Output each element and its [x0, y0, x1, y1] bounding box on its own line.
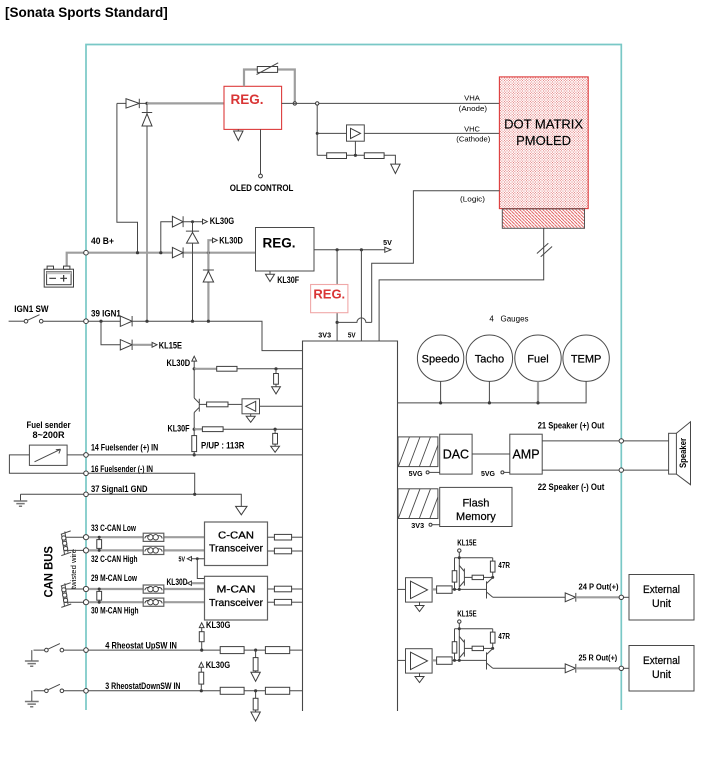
- svg-text:25 R Out(+): 25 R Out(+): [579, 653, 618, 662]
- resistor base pull 2: [452, 642, 457, 653]
- resistor KL30F row: [194, 427, 302, 432]
- svg-text:(Logic): (Logic): [460, 194, 485, 203]
- transistor Q1 (P drive): [459, 566, 464, 588]
- svg-text:External: External: [643, 584, 680, 596]
- node 32 (boundary): [65, 548, 89, 553]
- diode (vertical, below node): [142, 103, 152, 126]
- wire node to REG: [147, 102, 224, 104]
- label 3V3 (flash): [411, 521, 439, 530]
- svg-text:Tacho: Tacho: [475, 354, 504, 366]
- node: [254, 649, 257, 652]
- transistor Q4 (R out): [487, 649, 493, 670]
- display DOT MATRIX PMOLED: [499, 77, 588, 209]
- svg-text:Transceiver: Transceiver: [209, 597, 263, 609]
- svg-text:KL30D: KL30D: [167, 357, 191, 368]
- wire 3V3 drop: [336, 250, 338, 323]
- wire M-CAN high: [89, 601, 205, 603]
- arrow KL30G (rheostat down pull): [199, 659, 230, 691]
- node: [193, 493, 196, 496]
- node 33 (boundary): [66, 535, 89, 540]
- switch rheostat down: [25, 684, 84, 706]
- diode (IGN1 to B+ clamp): [203, 253, 214, 322]
- resistor (rheostat down B): [265, 687, 289, 694]
- svg-text:KL30G: KL30G: [210, 215, 234, 226]
- choke M-CAN high: [143, 598, 164, 606]
- arrow KL15E: [152, 339, 182, 350]
- arrow 5V (transceiver supply): [179, 555, 205, 579]
- svg-text:KL30G: KL30G: [206, 619, 230, 630]
- diode KL30G: [172, 216, 202, 227]
- label fuel sender: [26, 419, 70, 440]
- svg-text:4 Rheostat UpSW IN: 4 Rheostat UpSW IN: [105, 640, 177, 651]
- node 14 (boundary): [84, 453, 89, 458]
- svg-text:KL30G: KL30G: [206, 659, 230, 670]
- node: [453, 659, 456, 662]
- regulator REG1 (OLED supply): [224, 86, 282, 129]
- svg-text:Speaker: Speaker: [677, 438, 688, 468]
- transistor (fuel sense): [194, 369, 199, 429]
- resistor (buffer 1 out): [432, 586, 452, 593]
- comparator (fuel input): [242, 399, 303, 414]
- svg-text:Transceiver: Transceiver: [209, 543, 263, 555]
- label KL15E (1): [457, 539, 476, 553]
- wire VHA rail: [282, 102, 500, 104]
- svg-text:IGN1 SW: IGN1 SW: [14, 303, 48, 314]
- svg-text:Speedo: Speedo: [422, 354, 460, 366]
- node: [439, 401, 442, 404]
- node 29 (boundary): [66, 586, 89, 591]
- wire sender return: [9, 455, 83, 473]
- diode (clamp to KL30G): [186, 222, 199, 322]
- svg-text:14 Fuelsender (+) IN: 14 Fuelsender (+) IN: [91, 441, 158, 452]
- svg-text:5V: 5V: [179, 555, 186, 564]
- node 37 (boundary): [84, 492, 89, 497]
- svg-text:21 Speaker (+) Out: 21 Speaker (+) Out: [538, 419, 605, 430]
- svg-text:5VG: 5VG: [409, 469, 423, 478]
- wire 5V rail: [314, 249, 385, 251]
- node: [159, 251, 162, 254]
- hatched bus (Flash): [398, 489, 438, 519]
- resistor M-CAN RX out: [268, 599, 303, 605]
- node: [274, 367, 277, 370]
- resistor (rheostat down A): [220, 687, 244, 694]
- regulator REG2 (3V3): [311, 285, 348, 313]
- wire KL15E feed 2: [455, 623, 493, 660]
- svg-text:VHA: VHA: [464, 94, 480, 103]
- svg-text:KL15E: KL15E: [457, 539, 476, 548]
- diode (B+ to OLED reg): [126, 99, 147, 108]
- svg-text:3 RheostatDownSW IN: 3 RheostatDownSW IN: [105, 680, 180, 691]
- svg-text:OLED CONTROL: OLED CONTROL: [230, 182, 294, 193]
- node: [491, 647, 494, 650]
- gauge Fuel: [515, 335, 561, 403]
- svg-text:3V3: 3V3: [411, 521, 424, 530]
- svg-text:24 P Out(+): 24 P Out(+): [579, 582, 619, 591]
- ground arrow (signal GND): [236, 506, 247, 514]
- wire gauges bus: [398, 381, 587, 403]
- resistor 47R (2): [490, 629, 510, 649]
- node feedthrough: [619, 595, 623, 599]
- svg-text:(Cathode): (Cathode): [456, 134, 490, 143]
- node: [336, 248, 339, 251]
- node: [274, 428, 277, 431]
- wire 5V drop to MCU: [360, 250, 362, 341]
- buffer amp (P out): [406, 578, 433, 602]
- transistor Q3 (R drive): [459, 637, 464, 659]
- svg-text:Unit: Unit: [652, 598, 671, 610]
- node feedthrough: [619, 468, 623, 472]
- diode (B+ series): [172, 247, 183, 257]
- OLED CONTROL stub: [230, 129, 294, 193]
- diode IGN1 series: [120, 316, 132, 326]
- node: [458, 627, 461, 630]
- wire base 2: [452, 659, 486, 661]
- svg-text:KL15E: KL15E: [159, 339, 182, 350]
- external unit 1: [629, 575, 694, 621]
- svg-text:[Sonata Sports Standard]: [Sonata Sports Standard]: [5, 5, 168, 20]
- label KL15E (2): [457, 610, 476, 624]
- resistor M-CAN TX out: [268, 586, 303, 592]
- svg-text:Fuel: Fuel: [527, 354, 548, 366]
- ground arrow under REG1: [234, 129, 243, 140]
- wire speaker +: [542, 440, 668, 442]
- node KL30D tap: [207, 251, 210, 254]
- wire 37: [21, 494, 242, 506]
- arrow KL30D pull-up: [167, 356, 197, 369]
- svg-text:KL30F: KL30F: [277, 274, 299, 285]
- svg-text:REG.: REG.: [231, 92, 264, 107]
- wire MCU to buffer 2: [398, 659, 406, 661]
- wire KL15E feed 1: [455, 552, 493, 589]
- svg-text:40 B+: 40 B+: [91, 235, 114, 246]
- choke C-CAN low: [143, 533, 164, 541]
- svg-text:37 Signal1 GND: 37 Signal1 GND: [91, 483, 148, 494]
- svg-text:39 IGN1: 39 IGN1: [91, 308, 121, 319]
- svg-text:VHC: VHC: [464, 124, 480, 133]
- transistor Q2 (P out): [487, 578, 493, 599]
- node: [200, 649, 203, 652]
- speaker: [669, 422, 691, 485]
- choke M-CAN low: [143, 585, 164, 593]
- switch IGN1: [9, 315, 84, 323]
- node feedthrough: [619, 439, 623, 443]
- resistor (left of divider): [317, 153, 346, 159]
- wire C-CAN high: [89, 549, 205, 551]
- wire R output: [493, 667, 565, 669]
- gauge Tacho: [466, 335, 512, 403]
- wire rheostat up: [89, 649, 303, 651]
- svg-text:AMP: AMP: [512, 448, 539, 462]
- svg-text:5VG: 5VG: [481, 469, 495, 478]
- label VHA: [459, 94, 487, 113]
- svg-text:3V3: 3V3: [318, 330, 331, 339]
- resistor (right of divider): [364, 153, 395, 164]
- svg-text:Flash: Flash: [462, 498, 489, 510]
- gauge Speedo: [417, 335, 463, 403]
- svg-text:30 M-CAN High: 30 M-CAN High: [91, 605, 139, 616]
- resistor 47R (1): [490, 558, 510, 578]
- svg-text:DAC: DAC: [443, 448, 469, 462]
- node 4 (boundary): [84, 648, 89, 653]
- gauge TEMP: [563, 335, 609, 381]
- AMP: [510, 434, 542, 474]
- label 5VG (DAC): [409, 469, 440, 478]
- resistor pull-down + arrow: [251, 650, 260, 681]
- node 16 (boundary): [84, 471, 89, 476]
- wire B+ rail: [89, 252, 256, 254]
- resistor base pull 1: [452, 571, 457, 582]
- wire rheostat down: [89, 690, 303, 692]
- wire KL15E branch: [101, 321, 120, 345]
- wire logic net: [372, 191, 500, 323]
- node: [145, 320, 148, 323]
- resistor pull (KL30D row): [272, 369, 281, 394]
- wire 14: [67, 454, 302, 456]
- bus slash marker: [537, 243, 552, 257]
- svg-text:DOT MATRIX: DOT MATRIX: [504, 117, 583, 132]
- twisted pair icon M-CAN: [61, 583, 71, 608]
- arrow KL30G (rheostat up pull): [199, 619, 230, 650]
- buffer amp (VHC): [317, 125, 499, 141]
- svg-text:47R: 47R: [498, 561, 510, 570]
- diode (P out): [565, 593, 629, 602]
- display connector band: [502, 209, 584, 228]
- resistor pull (KL30F row): [271, 429, 280, 452]
- node: [191, 320, 194, 323]
- node: [136, 251, 139, 254]
- svg-text:KL15E: KL15E: [457, 610, 476, 619]
- node 39 IGN1 (boundary): [84, 319, 89, 324]
- node 40 B+ (boundary): [84, 250, 89, 255]
- node: [536, 401, 539, 404]
- svg-text:32 C-CAN High: 32 C-CAN High: [91, 553, 138, 564]
- node: [458, 659, 461, 662]
- ground arrow (comparator): [246, 414, 255, 423]
- wire B+ riser to diode: [117, 103, 138, 252]
- chassis ground (signal): [14, 494, 28, 506]
- MCU block: [303, 341, 398, 711]
- ground arrow KL30F under REG: [266, 271, 300, 285]
- node 3 (boundary): [84, 689, 89, 694]
- wire P output: [493, 596, 565, 598]
- arrow KL30D: [208, 234, 243, 252]
- svg-text:16 Fuelsender (-) IN: 16 Fuelsender (-) IN: [91, 463, 153, 474]
- wire M-CAN low: [89, 588, 205, 590]
- resistor base: [199, 402, 242, 407]
- resistor interstage 2: [464, 646, 492, 650]
- resistor M-CAN termination: [97, 588, 102, 604]
- wire C-CAN low: [89, 536, 205, 538]
- node divider: [347, 141, 365, 157]
- node: [488, 401, 491, 404]
- svg-text:REG.: REG.: [313, 287, 345, 302]
- node (VHA tap): [316, 102, 319, 105]
- svg-text:5V: 5V: [383, 238, 392, 247]
- resistor interstage 1: [464, 575, 492, 579]
- resistor pull-down + arrow: [251, 691, 260, 721]
- switch rheostat up: [25, 644, 84, 667]
- wire DAC to AMP: [472, 453, 510, 455]
- wire speaker -: [542, 469, 668, 471]
- svg-text:5V: 5V: [348, 330, 356, 339]
- node: [360, 248, 363, 251]
- svg-text:External: External: [643, 655, 680, 667]
- svg-text:Memory: Memory: [456, 511, 496, 523]
- svg-text:PMOLED: PMOLED: [516, 133, 571, 148]
- arrow KL30G: [203, 215, 235, 226]
- node: [458, 588, 461, 591]
- node: [316, 132, 319, 135]
- twisted pair icon C-CAN: [61, 531, 71, 556]
- C-CAN transceiver: [205, 522, 268, 566]
- wire MCU to buffer 1: [398, 588, 406, 590]
- svg-text:C-CAN: C-CAN: [218, 529, 254, 541]
- regulator REG. (5V): [256, 228, 315, 272]
- svg-text:P/UP : 113R: P/UP : 113R: [201, 440, 245, 451]
- node: [200, 689, 203, 692]
- resistor (rheostat up B): [265, 647, 289, 654]
- flash memory: [440, 487, 512, 526]
- node: [491, 576, 494, 579]
- resistor P/UP 113R: [192, 429, 245, 455]
- node: [458, 556, 461, 559]
- external unit 2: [629, 646, 694, 692]
- resistor (buffer 2 out): [432, 657, 452, 664]
- node KL30F: [168, 423, 196, 434]
- DAC: [440, 434, 472, 474]
- svg-text:KL30D: KL30D: [167, 576, 188, 587]
- wire VHC branch: [316, 105, 318, 155]
- fuel sender (variable resistor): [29, 445, 67, 465]
- node VHA: [293, 102, 296, 105]
- svg-text:(Anode): (Anode): [459, 104, 487, 113]
- node feedthrough: [619, 666, 623, 670]
- wire 3V3 to logic net (hop over 5V): [337, 318, 372, 341]
- wire display bus to MCU: [379, 228, 544, 341]
- node 3V3: [336, 321, 339, 324]
- node: [99, 320, 102, 323]
- buffer amp (R out): [406, 649, 433, 673]
- arrow 5V: [383, 238, 392, 252]
- choke C-CAN high: [143, 546, 164, 554]
- wire riser to KL30G diode: [161, 222, 173, 253]
- svg-text:Unit: Unit: [652, 669, 671, 681]
- ground arrow (buffer 1): [415, 602, 424, 611]
- label 5VG (AMP): [481, 469, 510, 478]
- wire base 1: [452, 588, 486, 590]
- wire (down to IGN1 line): [146, 126, 148, 321]
- battery: [44, 253, 84, 287]
- svg-text:TEMP: TEMP: [571, 354, 602, 366]
- resistor C-CAN termination: [97, 536, 102, 552]
- diode KL15E: [120, 340, 152, 350]
- svg-text:CAN BUS: CAN BUS: [42, 546, 56, 597]
- ground arrow (divider): [391, 164, 400, 173]
- svg-text:4 Gauges: 4 Gauges: [489, 315, 528, 324]
- svg-text:8~200R: 8~200R: [32, 429, 64, 440]
- svg-text:KL30F: KL30F: [168, 423, 190, 434]
- diode (R out): [565, 664, 629, 673]
- node: [193, 453, 196, 456]
- wire IGN1: [89, 321, 303, 350]
- node: [254, 689, 257, 692]
- node: [191, 220, 194, 223]
- wire 16: [89, 473, 195, 494]
- variable resistor (feedback): [244, 63, 295, 104]
- cluster boundary: [86, 45, 621, 711]
- resistor KL30D row: [194, 366, 302, 371]
- svg-text:47R: 47R: [498, 632, 510, 641]
- node: [207, 320, 210, 323]
- svg-text:29 M-CAN Low: 29 M-CAN Low: [91, 572, 137, 583]
- svg-text:REG.: REG.: [263, 235, 296, 250]
- node: [145, 102, 148, 105]
- resistor C-CAN RX out: [268, 548, 303, 554]
- arrow KL30D (M-CAN supply): [167, 576, 205, 587]
- svg-text:KL30D: KL30D: [219, 234, 243, 245]
- label VHC: [456, 124, 490, 143]
- node: [193, 367, 196, 370]
- svg-text:22 Speaker (-) Out: 22 Speaker (-) Out: [538, 481, 605, 492]
- node: [453, 588, 456, 591]
- node 30 (boundary): [65, 600, 89, 605]
- resistor (rheostat up A): [220, 647, 244, 654]
- svg-text:M-CAN: M-CAN: [217, 584, 256, 596]
- hatched bus (DAC): [398, 437, 438, 467]
- resistor C-CAN TX out: [268, 534, 303, 540]
- M-CAN transceiver: [205, 576, 268, 620]
- ground arrow (buffer 2): [415, 673, 424, 682]
- svg-text:33 C-CAN Low: 33 C-CAN Low: [91, 522, 136, 533]
